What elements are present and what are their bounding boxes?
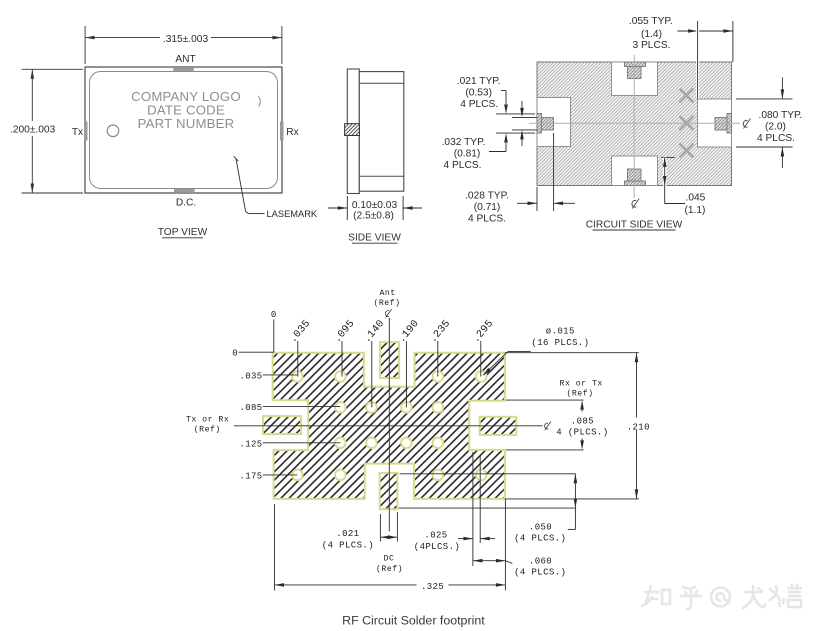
dim .210 line and arrows: [636, 353, 638, 499]
svg-text:.021: .021: [336, 529, 359, 539]
dim .025 arrows: [458, 538, 473, 540]
svg-text:(Ref): (Ref): [373, 298, 400, 308]
dim .045 leader: [661, 156, 675, 158]
footprint horizontal centerline: [234, 425, 543, 427]
side view solder pad hatched: [345, 124, 360, 136]
svg-text:.050: .050: [529, 522, 552, 532]
dim .060 line and arrows: [473, 560, 506, 562]
svg-text:(0.71): (0.71): [474, 202, 501, 213]
svg-text:3 PLCS.: 3 PLCS.: [633, 40, 671, 51]
circuit side view right pad: [715, 114, 732, 134]
top coordinate leaders: [297, 341, 299, 377]
dim .055 extension lines: [696, 21, 699, 99]
side view body: [359, 72, 404, 192]
dim .021 dc line and arrows: [380, 536, 397, 538]
circuit side view left pad: [537, 114, 554, 134]
svg-text:.060: .060: [529, 556, 552, 566]
svg-text:.021 TYP.: .021 TYP.: [457, 76, 501, 87]
footprint ground pad polygon: [273, 353, 505, 499]
top view lid rounded outline: [90, 72, 278, 189]
circuit side view body hatched: [537, 62, 732, 186]
svg-text:(4 PLCS.): (4 PLCS.): [514, 568, 566, 578]
dimension .315 line: [85, 37, 160, 39]
svg-text:4 PLCS.: 4 PLCS.: [757, 133, 795, 144]
circuit side view top pad: [625, 62, 646, 79]
svg-text:.080 TYP.: .080 TYP.: [759, 110, 803, 121]
svg-text:ANT: ANT: [175, 54, 195, 65]
svg-text:CIRCUIT SIDE VIEW: CIRCUIT SIDE VIEW: [586, 219, 683, 230]
svg-text:4 PLCS.: 4 PLCS.: [444, 160, 482, 171]
circuit side view centerlines: [529, 122, 740, 124]
svg-text:TOP VIEW: TOP VIEW: [158, 227, 208, 238]
side view lid slab: [347, 69, 359, 194]
svg-text:(16 PLCS.): (16 PLCS.): [531, 338, 589, 348]
svg-text:.028 TYP.: .028 TYP.: [465, 191, 509, 202]
footprint vias 16 plcs: [292, 371, 487, 480]
svg-text:4 (PLCS.): 4 (PLCS.): [556, 427, 608, 437]
dim .085 right arrows: [581, 405, 583, 412]
centerline symbol bottom: [632, 199, 639, 209]
alignment X marks: [680, 89, 694, 158]
dim .055 leader and arrows: [678, 30, 733, 32]
svg-text:4 PLCS.: 4 PLCS.: [468, 214, 506, 225]
dim .325 extension lines: [274, 504, 276, 591]
centerline symbol right footprint: [545, 422, 551, 431]
svg-text:PART NUMBER: PART NUMBER: [138, 116, 235, 131]
dia .015 leader: [508, 351, 531, 353]
svg-text:Rx: Rx: [286, 127, 298, 138]
dimension .315 extension lines: [84, 26, 86, 64]
svg-text:D.C.: D.C.: [176, 198, 196, 209]
side view thickness dim extension lines: [346, 196, 348, 220]
svg-text:.025: .025: [424, 530, 447, 540]
side view body inner lines: [359, 82, 404, 84]
svg-text:.175: .175: [239, 471, 262, 481]
svg-text:.085: .085: [239, 403, 262, 413]
svg-text:.055 TYP.: .055 TYP.: [629, 16, 673, 27]
svg-text:.200±.003: .200±.003: [10, 125, 56, 136]
circuit side view bottom pad: [625, 169, 646, 186]
side view thickness dim arrows: [328, 207, 347, 209]
svg-text:(0.53): (0.53): [465, 88, 492, 99]
svg-text:.315±.003: .315±.003: [163, 34, 209, 45]
footprint vertical centerline: [388, 318, 390, 531]
footprint Rx-or-Tx right pad: [480, 417, 517, 435]
svg-text:Tx or Rx: Tx or Rx: [186, 416, 229, 425]
centerline symbol right: [743, 119, 750, 129]
svg-text:.325: .325: [421, 582, 444, 592]
dim .060 extension verticals: [472, 452, 474, 566]
svg-text:.035: .035: [239, 372, 262, 382]
footprint DC pad: [380, 473, 398, 509]
svg-text:Rx or Tx: Rx or Tx: [560, 380, 603, 389]
svg-text:Ant: Ant: [379, 289, 395, 298]
dim .021 dc extension lines: [379, 514, 381, 542]
svg-text:.085: .085: [571, 416, 594, 426]
svg-text:(Ref): (Ref): [566, 388, 593, 398]
watermark zhihu: [642, 585, 801, 609]
dim .050 extension lines: [400, 473, 576, 475]
svg-text:0: 0: [232, 349, 238, 359]
svg-text:(4 PLCS.): (4 PLCS.): [322, 541, 374, 551]
circuit side view bottom notch: [612, 156, 658, 186]
dim .050 line arrows bracket: [574, 474, 576, 530]
dim .080 extension lines and arrows: [736, 98, 793, 100]
svg-text:(Ref): (Ref): [194, 424, 221, 434]
svg-text:(2.5±0.8): (2.5±0.8): [353, 211, 394, 222]
svg-text:ø.015: ø.015: [546, 327, 575, 337]
svg-text:SIDE VIEW: SIDE VIEW: [348, 233, 401, 244]
dimension .200 line: [31, 69, 33, 121]
svg-text:LASEMARK: LASEMARK: [267, 209, 318, 219]
svg-text:Tx: Tx: [72, 127, 83, 138]
dimension .200 extension lines: [22, 68, 83, 70]
circuit side view right notch: [698, 99, 732, 147]
footprint Tx-or-Rx left pad: [263, 416, 301, 434]
dim .210 extension lines: [505, 352, 639, 354]
svg-text:.125: .125: [239, 439, 262, 449]
lid mark: [258, 96, 260, 107]
svg-text:.210: .210: [627, 422, 650, 432]
top view package outline: [85, 67, 282, 193]
dim .032 leaders: [489, 151, 506, 153]
svg-text:(1.4): (1.4): [641, 29, 662, 40]
svg-text:.045: .045: [686, 193, 706, 204]
svg-text:(2.0): (2.0): [765, 122, 786, 133]
dim .085 right extension lines: [506, 399, 584, 401]
dim .028 extension lines and arrows: [536, 187, 538, 211]
svg-text:DC: DC: [384, 555, 395, 564]
svg-text:(4 PLCS.): (4 PLCS.): [514, 534, 566, 544]
dim .021 leaders: [501, 90, 506, 92]
centerline symbol ant: [385, 309, 391, 318]
lasemark leader: [236, 159, 246, 212]
dim .325 line and arrows: [275, 584, 506, 586]
svg-text:0: 0: [271, 310, 277, 320]
footprint Ant pad: [380, 342, 399, 378]
svg-text:(0.81): (0.81): [454, 149, 481, 160]
svg-text:(Ref): (Ref): [376, 564, 403, 574]
circuit side view top notch: [612, 62, 658, 96]
svg-text:RF Circuit Solder footprint: RF Circuit Solder footprint: [342, 613, 485, 627]
svg-text:(1.1): (1.1): [685, 205, 706, 216]
circuit side view left notch: [537, 98, 571, 147]
top view edge pad ticks: [84, 68, 284, 192]
svg-text:(4PLCS.): (4PLCS.): [414, 542, 460, 552]
svg-text:4 PLCS.: 4 PLCS.: [460, 99, 498, 110]
pin-1 index circle: [107, 125, 119, 137]
svg-text:0.10±0.03: 0.10±0.03: [352, 200, 398, 211]
svg-text:.032 TYP.: .032 TYP.: [442, 137, 486, 148]
